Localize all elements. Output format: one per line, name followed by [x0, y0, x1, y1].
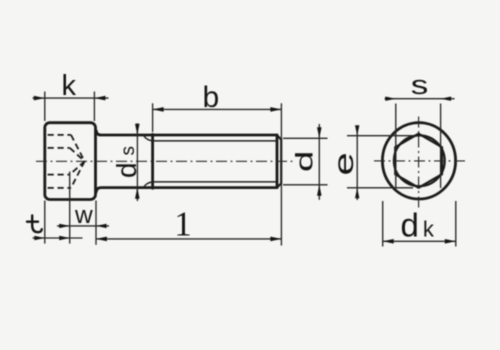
svg-text:s: s — [411, 71, 429, 100]
svg-text:1: 1 — [174, 204, 192, 243]
svg-text:d: d — [291, 151, 318, 172]
svg-text:b: b — [203, 81, 220, 114]
svg-text:s: s — [118, 146, 139, 156]
svg-text:d: d — [111, 162, 142, 178]
svg-text:w: w — [74, 202, 93, 229]
svg-text:k: k — [62, 70, 77, 102]
svg-text:e: e — [328, 152, 359, 175]
